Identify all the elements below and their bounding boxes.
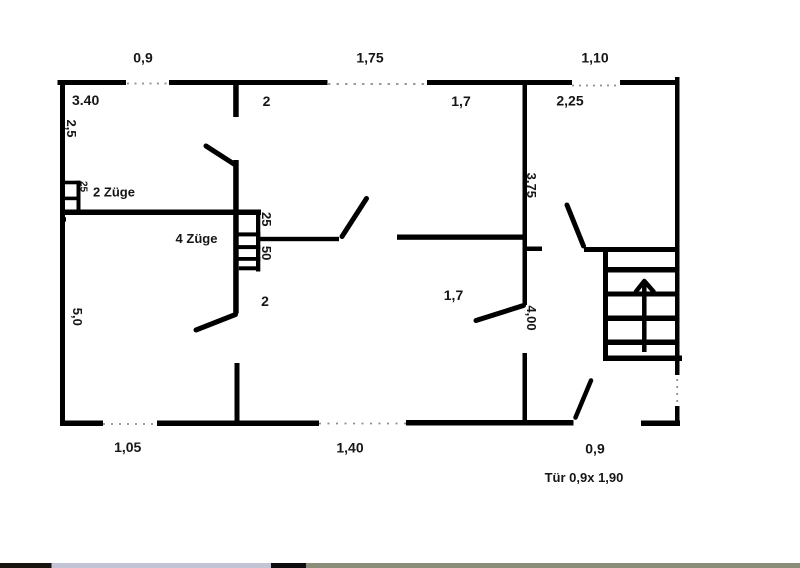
interior wall B lower segment <box>523 353 528 422</box>
svg-text:5,0: 5,0 <box>70 308 85 326</box>
stairs arrow head <box>636 281 654 292</box>
top wall segment 1 <box>58 80 127 85</box>
door swing D4 stairwell <box>567 205 584 246</box>
window opening 1,05 dotted <box>103 423 157 425</box>
nib wall right of B <box>527 247 542 252</box>
interior horizontal wall C <box>60 210 261 216</box>
interior wall A top segment (x=236) <box>233 84 239 117</box>
svg-text:25: 25 <box>78 181 89 193</box>
chimney 4 Zuege right side <box>256 210 260 272</box>
stairs tread 1 <box>606 267 677 273</box>
chimney 2 Zuege middle rung <box>61 197 81 201</box>
svg-text:50: 50 <box>259 246 274 260</box>
svg-text:2,5: 2,5 <box>64 119 79 137</box>
svg-text:2 Züge: 2 Züge <box>93 185 135 200</box>
bottom wall segment 2 <box>157 421 319 427</box>
window opening 1,40 dotted <box>319 423 406 425</box>
bottom strip olive <box>306 563 800 568</box>
door swing D5 <box>476 306 524 321</box>
svg-text:4,00: 4,00 <box>524 305 539 330</box>
chimney 4 Zuege rung 2 <box>235 245 260 249</box>
bottom strip lavender <box>52 563 272 568</box>
svg-text:3,75: 3,75 <box>524 173 539 198</box>
interior wall B upper segment (x=525) <box>523 84 528 305</box>
stairs tread 4 <box>606 340 677 346</box>
chimney 4 Zuege rung 1 <box>236 232 260 236</box>
svg-text:1,75: 1,75 <box>356 50 383 66</box>
stairs bottom line <box>603 356 682 362</box>
chimney 2 Zuege top bar <box>65 181 81 185</box>
stairs top line <box>584 247 678 252</box>
window opening 1,10 dotted <box>572 85 620 87</box>
svg-text:2,25: 2,25 <box>556 93 583 109</box>
left wall <box>60 80 65 426</box>
bottom wall segment 3 <box>406 420 574 426</box>
window opening 0,9 dotted <box>127 83 169 85</box>
interior wall A bottom segment <box>235 363 240 422</box>
svg-text:1,40: 1,40 <box>336 440 363 456</box>
svg-text:1,7: 1,7 <box>451 93 471 109</box>
door swing D1 <box>206 146 236 165</box>
interior horizontal wall D right part <box>397 235 527 240</box>
right wall dotted opening <box>676 379 678 404</box>
svg-text:1,7: 1,7 <box>444 287 464 303</box>
stairs tread 2 <box>606 292 677 297</box>
svg-text:1,10: 1,10 <box>581 50 608 66</box>
interior horizontal wall D left part <box>258 237 339 241</box>
stairs tread 3 <box>606 316 677 322</box>
svg-text:3.40: 3.40 <box>72 92 99 108</box>
svg-text:1,05: 1,05 <box>114 439 141 455</box>
top wall segment 4 <box>620 80 679 85</box>
bottom strip black <box>271 563 306 568</box>
top wall segment 2 <box>169 80 328 85</box>
interior wall A middle segment <box>233 160 239 314</box>
stairs left rail <box>603 247 608 361</box>
svg-text:2: 2 <box>263 93 271 109</box>
door swing D6 bottom door <box>576 381 592 418</box>
right wall upper <box>675 77 680 375</box>
svg-text:25: 25 <box>259 212 274 226</box>
top wall segment 3 <box>427 80 572 85</box>
svg-text:0,9: 0,9 <box>585 441 605 457</box>
svg-text:2: 2 <box>261 293 269 309</box>
window opening 1,75 dotted <box>328 83 427 85</box>
stairs arrow shaft <box>642 283 647 352</box>
door swing D2 <box>196 315 236 331</box>
svg-text:0,9: 0,9 <box>133 50 153 66</box>
bottom strip dark left <box>0 563 52 568</box>
svg-text:Tür 0,9x 1,90: Tür 0,9x 1,90 <box>545 470 624 485</box>
chimney 4 Zuege bottom bar <box>239 266 259 270</box>
chimney 4 Zuege rung 3 <box>236 257 260 261</box>
chimney 2 Zuege lower nub <box>61 217 67 221</box>
svg-text:4 Züge: 4 Züge <box>176 231 218 246</box>
chimney 2 Zuege right side <box>77 181 81 211</box>
bottom wall segment 1 <box>60 421 103 427</box>
bottom wall segment 4 right of door <box>641 421 680 427</box>
door swing D3 <box>342 199 367 237</box>
right wall lower <box>675 406 680 426</box>
